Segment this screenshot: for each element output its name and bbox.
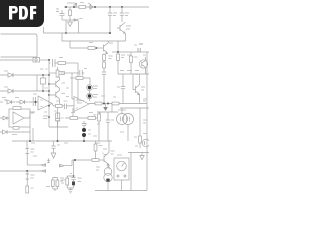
diode D2	[88, 3, 94, 9]
wire	[120, 107, 149, 109]
wire	[117, 41, 119, 52]
resistor R23	[92, 149, 107, 161]
wire	[97, 112, 118, 118]
resistor R5	[117, 52, 125, 74]
resistor R8	[57, 72, 79, 75]
wire	[118, 73, 149, 75]
capacitor C1	[56, 9, 65, 20]
label	[93, 86, 98, 89]
label	[93, 95, 98, 98]
wire	[72, 108, 74, 118]
capacitor C12	[82, 121, 86, 128]
diode D1	[69, 7, 72, 20]
resistor R27	[66, 176, 74, 188]
resistor R1	[79, 3, 86, 9]
PDF badge	[0, 0, 44, 27]
wire	[24, 112, 35, 118]
LED DL3	[82, 128, 86, 132]
node J5	[117, 51, 119, 53]
node J7	[34, 101, 36, 103]
wire	[26, 141, 28, 148]
diode D3	[0, 73, 49, 77]
wire y171	[0, 170, 41, 172]
node J14	[42, 74, 50, 92]
wire	[128, 152, 149, 154]
supply cross mark	[47, 159, 50, 164]
label specks scattered	[2, 55, 147, 187]
transistor Q3 circle	[139, 57, 147, 74]
transistor Q5	[133, 74, 145, 104]
wire	[57, 112, 59, 118]
wire	[7, 131, 30, 133]
wire	[29, 127, 31, 141]
label specks	[120, 70, 139, 72]
resistor R9	[40, 69, 48, 91]
wire stubs	[49, 84, 56, 95]
ground	[68, 188, 72, 193]
zener ZD1	[26, 149, 35, 166]
transistor Q6	[104, 141, 115, 165]
transistor Q7 circle	[142, 139, 150, 147]
resistor R22	[53, 178, 65, 192]
label	[143, 99, 147, 101]
label	[143, 133, 147, 135]
capacitor C16	[64, 101, 75, 109]
op-amp U1	[38, 96, 52, 110]
wire	[36, 75, 38, 91]
resistor R25	[56, 101, 63, 107]
capacitor C4	[102, 70, 106, 104]
resistor R29	[94, 141, 102, 160]
wire bottom row	[49, 126, 68, 128]
transistor Q2	[104, 41, 114, 59]
capacitor C14	[51, 178, 54, 190]
ground	[68, 20, 73, 27]
component jack S1	[33, 58, 40, 63]
resistor R28	[13, 127, 19, 130]
wire	[72, 73, 74, 99]
wire	[83, 137, 85, 141]
label	[60, 174, 82, 182]
capacitor C6	[49, 59, 58, 67]
wire W1	[44, 27, 111, 33]
resistor R10	[56, 70, 64, 77]
label IC1	[67, 3, 77, 5]
box shield B1	[1, 34, 38, 57]
resistor R4	[103, 61, 106, 71]
LED DL1	[87, 85, 93, 91]
wire verticals right block	[122, 74, 124, 86]
wire	[49, 72, 57, 74]
node J9	[29, 140, 85, 142]
diode D6	[16, 100, 29, 104]
wire right rail segment	[112, 51, 149, 53]
wire	[111, 104, 113, 112]
wire	[127, 130, 129, 141]
resistor R7	[58, 58, 78, 65]
capacitor C9	[117, 87, 125, 104]
wire op-amp2 output	[89, 103, 147, 105]
connector arrow IN	[74, 19, 83, 22]
wire	[130, 153, 132, 191]
label U1	[45, 87, 48, 89]
wire	[95, 47, 104, 49]
capacitor C10	[55, 118, 63, 141]
wire	[121, 180, 123, 191]
node J15	[48, 105, 50, 118]
wire top supply rail	[64, 6, 149, 8]
wire	[108, 165, 110, 169]
node J12	[48, 83, 50, 96]
wire	[65, 20, 67, 33]
resistor R14	[112, 102, 119, 105]
opto T4B tube	[117, 108, 134, 130]
resistor R6	[130, 52, 138, 74]
wire to arrow	[27, 164, 41, 166]
capacitor C17 electrolytic	[54, 108, 60, 128]
node J13	[73, 175, 75, 177]
connector arrow A3	[60, 160, 73, 167]
wire vertical x57	[57, 67, 59, 70]
capacitor C7	[80, 69, 87, 76]
capacitor C15	[71, 178, 75, 189]
capacitor C11	[106, 112, 114, 141]
connector arrow A2	[41, 170, 46, 173]
capacitor C2	[108, 7, 117, 33]
capacitor C5	[134, 44, 143, 52]
wire bottom	[95, 153, 147, 191]
supply arrow	[75, 3, 77, 8]
node J4	[96, 47, 98, 49]
ground	[51, 153, 56, 158]
wire	[40, 59, 50, 61]
resistor R3	[103, 54, 106, 61]
diode D8	[0, 116, 9, 120]
wire	[78, 22, 80, 34]
meter M1 box	[114, 155, 129, 180]
wire	[77, 63, 79, 104]
capacitor C3	[120, 7, 129, 22]
op-amp U3 box	[9, 109, 30, 127]
connector arrow A1	[41, 163, 50, 167]
resistor R19	[88, 113, 96, 120]
node J8	[103, 103, 109, 105]
capacitor C13	[51, 141, 60, 153]
wire	[72, 159, 92, 161]
wire long y141	[12, 140, 112, 142]
node J11	[74, 159, 76, 161]
zener ZD2	[26, 171, 35, 186]
resistor R17	[13, 107, 21, 110]
wire	[52, 104, 64, 106]
wire	[139, 108, 141, 133]
transistor Q4a	[56, 77, 65, 91]
signal chain lead	[0, 101, 3, 103]
transistor Q4b	[56, 90, 65, 104]
meter M1	[117, 161, 127, 177]
resistor R21	[26, 186, 34, 193]
ground	[103, 104, 108, 111]
wire right edge	[146, 52, 148, 153]
resistor R24	[134, 133, 141, 148]
op-amp U3	[13, 112, 24, 124]
resistor R18	[70, 113, 78, 120]
wire W3	[70, 47, 88, 49]
wire H4	[0, 59, 33, 61]
wire	[132, 74, 134, 90]
resistor R13	[95, 102, 102, 105]
resistor R2	[88, 43, 95, 50]
node J2	[94, 6, 123, 8]
label VR	[43, 116, 48, 119]
ground	[140, 153, 144, 160]
diode D5	[4, 100, 16, 104]
wire	[89, 90, 91, 101]
wire	[48, 60, 50, 127]
diode D9	[0, 130, 7, 134]
wire W2	[62, 33, 126, 41]
op-amp U2	[74, 97, 89, 112]
LED DL2	[87, 93, 93, 99]
wire	[32, 128, 34, 141]
wire Q1 emitter down	[125, 33, 127, 41]
node J6	[48, 59, 50, 61]
node J1	[65, 6, 75, 8]
lamp EL1	[104, 165, 112, 191]
LED DL4	[82, 133, 86, 137]
capacitor C8	[29, 94, 38, 106]
transistor Q1	[117, 22, 131, 33]
resistor R12	[70, 77, 90, 85]
diode D4	[0, 89, 49, 93]
wire y118	[65, 117, 97, 119]
wire	[62, 19, 78, 21]
node J3	[65, 32, 111, 34]
wire	[69, 41, 71, 48]
resistor R20	[93, 112, 100, 141]
wire	[73, 160, 75, 177]
node J10	[26, 170, 28, 172]
